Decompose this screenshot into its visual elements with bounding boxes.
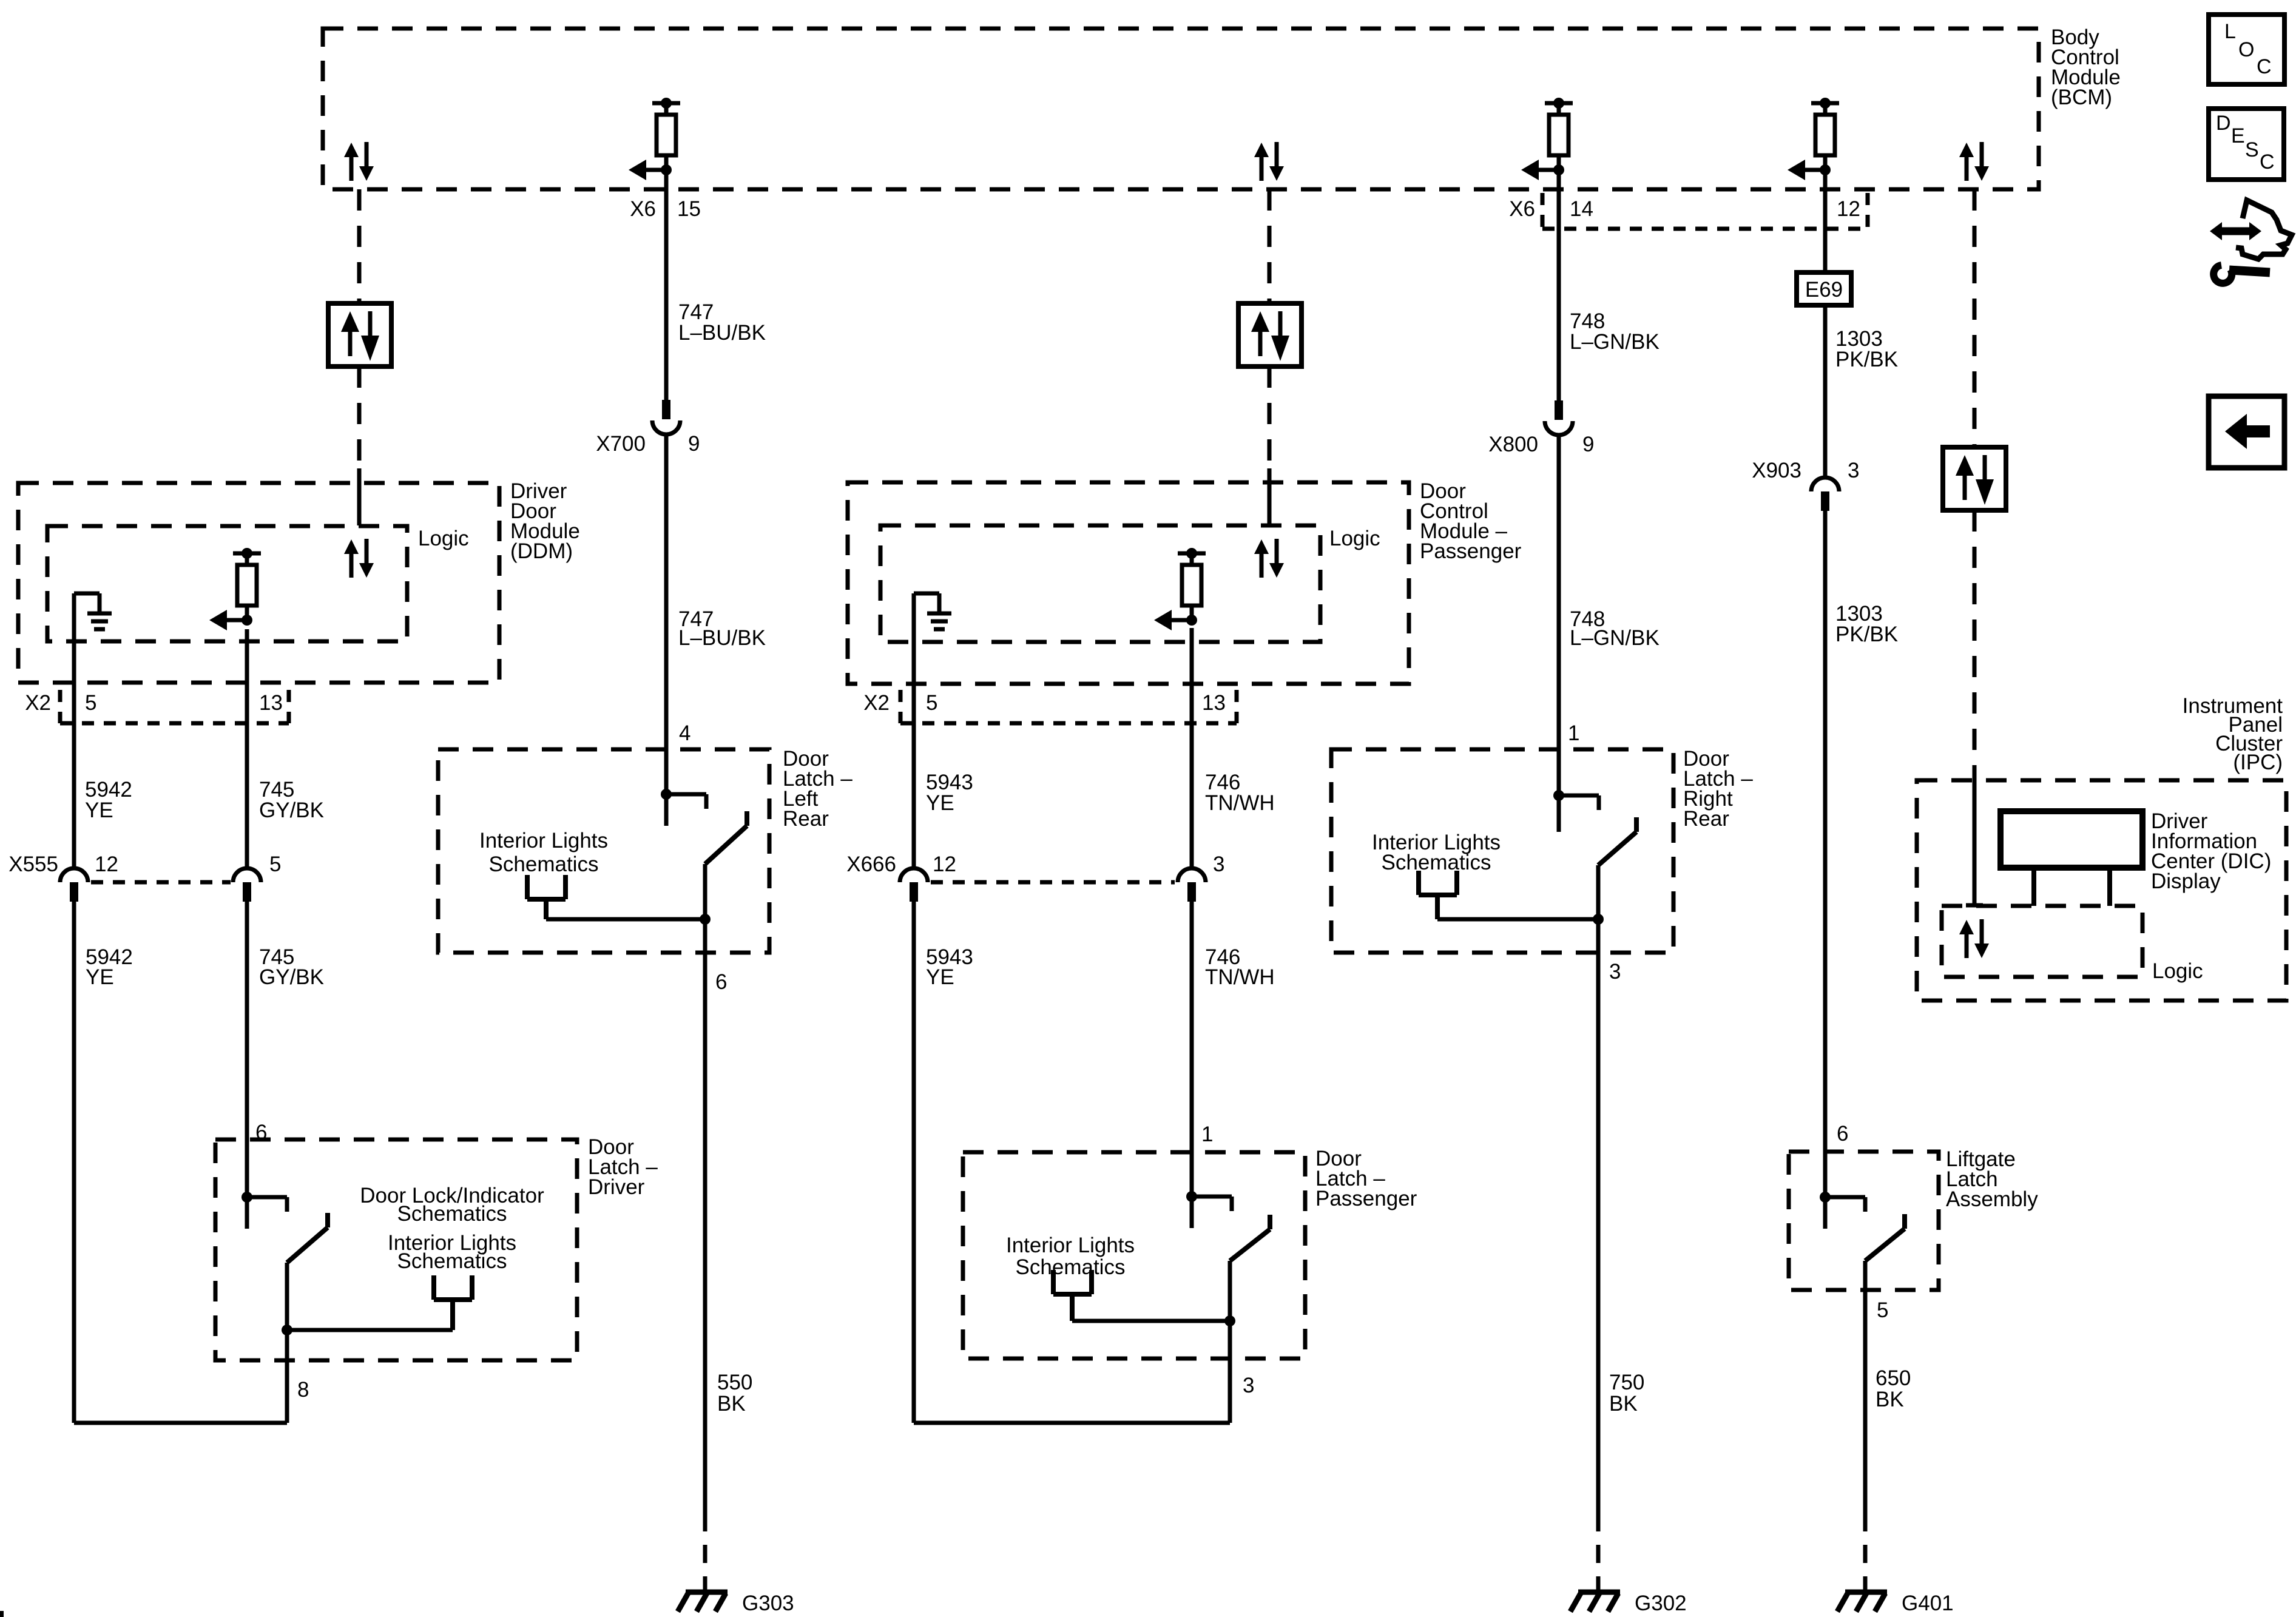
svg-text:Driver: Driver (588, 1175, 645, 1199)
wire: X666-12 to Door Latch Passenger pin 3 loop (5943 YE) (914, 902, 1230, 1423)
wire: dashed drop to G401 (1863, 1513, 1868, 1591)
svg-text:YE: YE (926, 965, 954, 989)
connector X666 pin 3 (1178, 852, 1224, 902)
svg-text:12: 12 (1837, 197, 1860, 221)
svg-text:G302: G302 (1635, 1592, 1687, 1615)
ground G303 (678, 1592, 794, 1615)
data link connector symbol (boxed arrows) BCM-IPC (1943, 447, 2006, 510)
svg-text:750: 750 (1609, 1371, 1644, 1394)
svg-text:O: O (2238, 38, 2254, 61)
module box: Driver Door Module (DDM) (18, 483, 499, 683)
data link symbol in IPC logic (1959, 919, 1989, 958)
svg-text:Schematics: Schematics (397, 1202, 507, 1226)
wire: serial data dashed BCM to DDM (357, 189, 362, 303)
svg-text:Logic: Logic (418, 527, 469, 550)
wire label 747 L-BU/BK (lower) (678, 607, 766, 650)
switch fixed contact (Liftgate Latch) (1820, 1192, 1865, 1229)
switch fixed contact (Door Latch Left Rear) (661, 789, 706, 826)
svg-text:Interior Lights: Interior Lights (1006, 1234, 1135, 1257)
svg-text:(IPC): (IPC) (2233, 751, 2283, 774)
svg-text:X6: X6 (630, 197, 656, 221)
connector pin 12 label (1837, 197, 1860, 221)
switch blade (Door Latch Passenger) (1230, 1215, 1270, 1261)
ground symbol in DDM logic (74, 593, 112, 629)
ground G302 (1570, 1592, 1687, 1615)
module box: Instrument Panel Cluster (IPC) (1917, 780, 2286, 1001)
connector X2 (DCM) label (863, 691, 890, 715)
module box: Door Latch - Left Rear (438, 749, 769, 953)
schematic reference bracket (Passenger) (1053, 1270, 1092, 1321)
svg-text:3: 3 (1243, 1374, 1254, 1397)
ground symbol in DCM logic (914, 593, 951, 629)
svg-text:Passenger: Passenger (1315, 1187, 1417, 1210)
wire: junction to bracket (Left Rear) (546, 917, 705, 922)
svg-text:L–BU/BK: L–BU/BK (678, 321, 766, 345)
svg-text:Schematics: Schematics (489, 852, 599, 876)
svg-text:1: 1 (1201, 1122, 1213, 1146)
wire label 1303 PK/BK (upper) (1835, 327, 1898, 371)
data link symbol (serial data arrows) in BCM, DDM branch (344, 142, 374, 181)
label: Interior Lights Schematics (Passenger) (1006, 1234, 1135, 1279)
connector X2 (DCM) dotted box (900, 690, 1237, 723)
switch fixed contact (Door Latch Right Rear) (1553, 790, 1599, 827)
label: Interior Lights Schematics (Left Rear) (479, 829, 608, 876)
pin 8 label (Door Latch Driver) (297, 1378, 309, 1402)
svg-text:G401: G401 (1902, 1592, 1954, 1615)
svg-text:X903: X903 (1752, 459, 1801, 482)
svg-text:5: 5 (85, 691, 96, 715)
svg-text:YE: YE (86, 965, 114, 989)
driver output U1 (resistor) in BCM for X6 pin 15 (629, 98, 680, 180)
svg-text:X700: X700 (596, 432, 646, 456)
wire: pin 8 down to loop (285, 1330, 289, 1423)
wire: DDM X2-5 to X555-12 (5942 YE) (72, 593, 76, 868)
svg-text:Assembly: Assembly (1946, 1187, 2038, 1211)
data link symbol in DCM logic (1254, 539, 1284, 578)
svg-text:3: 3 (1213, 852, 1224, 876)
icon: DESC reference box (2209, 109, 2284, 180)
wire label 745 GY/BK (upper) (259, 778, 324, 822)
wire: dashed drop to G303 (703, 1513, 707, 1591)
svg-text:X800: X800 (1488, 433, 1538, 456)
connector X2 (DDM) dotted box (60, 690, 289, 723)
wire label 746 TN/WH (lower) (1205, 945, 1275, 989)
data link symbol (serial data arrows) in BCM, DCM branch (1254, 142, 1284, 181)
logic box in DDM (47, 526, 407, 641)
svg-text:8: 8 (297, 1378, 309, 1402)
label: Door Control Module - Passenger (1420, 479, 1522, 563)
svg-text:14: 14 (1570, 197, 1593, 221)
wire: DDM X2-13 to X555-5 (745 GY/BK) (245, 629, 249, 868)
pin 1 label (Door Latch Passenger) (1201, 1122, 1213, 1146)
svg-text:Interior Lights: Interior Lights (479, 829, 608, 852)
label: Logic (IPC) (2152, 959, 2203, 983)
data link connector symbol (boxed arrows) BCM-DCM (1238, 303, 1302, 366)
wire label 745 GY/BK (lower) (259, 945, 324, 989)
schematic reference bracket (Left Rear) (527, 875, 566, 919)
connector X555 pin 5 (233, 852, 281, 902)
wire: X555-12 to Door Latch Driver pin 8 loop (5942 YE) (74, 902, 287, 1423)
svg-text:6: 6 (255, 1121, 267, 1144)
svg-text:D: D (2216, 112, 2231, 135)
module box: Door Latch - Passenger (963, 1152, 1305, 1359)
wire label 650 BK (1876, 1366, 1911, 1411)
driver output Q2 (resistor) in DCM logic (1154, 548, 1206, 630)
module box: Door Latch - Right Rear (1331, 749, 1673, 953)
connector X555 dotted link (91, 880, 231, 885)
svg-text:X2: X2 (863, 691, 890, 715)
svg-text:TN/WH: TN/WH (1205, 965, 1275, 989)
svg-text:L–GN/BK: L–GN/BK (1570, 626, 1660, 650)
ground G401 (1837, 1592, 1954, 1615)
wire: serial data into IPC logic (1966, 771, 1983, 905)
stray ink mark (page corner) (0, 1611, 4, 1617)
label: Instrument Panel Cluster (IPC) (2183, 694, 2283, 774)
wire: X800 to Door Latch Right Rear pin 1 (748 L-GN/BK) (1557, 435, 1561, 832)
connector X2 pin 5 label (DDM) (85, 691, 96, 715)
wire label 748 L-GN/BK (upper) (1570, 309, 1660, 354)
connector X666 pin 12 (900, 868, 928, 902)
wire: X555-5 to Door Latch Driver pin 6 (745 GY/BK) (245, 902, 249, 1197)
label: Driver Information Center (DIC) Display (2151, 809, 2271, 893)
svg-text:Rear: Rear (783, 807, 829, 831)
wire label 747 L-BU/BK (upper) (678, 300, 766, 345)
wire label 750 BK (1609, 1371, 1644, 1416)
label: Body Control Module (BCM) (2051, 25, 2121, 109)
svg-text:L–GN/BK: L–GN/BK (1570, 330, 1660, 354)
svg-text:550: 550 (717, 1371, 752, 1394)
wire: Liftgate Latch pin 5 to G401 (650 BK) (1863, 1261, 1868, 1513)
schematic reference bracket (Door Latch Driver) (434, 1275, 472, 1330)
svg-text:S: S (2245, 138, 2259, 161)
display: Driver Information Center (DIC) (2001, 811, 2142, 868)
svg-text:X555: X555 (8, 852, 58, 876)
svg-text:3: 3 (1848, 459, 1859, 482)
label: Liftgate Latch Assembly (1946, 1147, 2038, 1211)
svg-text:(BCM): (BCM) (2051, 86, 2112, 109)
svg-text:YE: YE (85, 798, 113, 822)
svg-text:15: 15 (677, 197, 701, 221)
wire: serial data dashed BCM to DCM (1268, 189, 1272, 303)
svg-text:(DDM): (DDM) (510, 539, 573, 563)
pin 4 label (Door Latch Left Rear) (679, 721, 690, 745)
pin 6 label (Liftgate Latch) (1837, 1122, 1848, 1146)
switch blade (Door Latch Left Rear) (705, 811, 747, 864)
module box: Door Latch - Driver (215, 1139, 577, 1360)
wire label 746 TN/WH (upper) (1205, 771, 1275, 815)
label: Driver Door Module (DDM) (510, 479, 580, 563)
connector X903 label (1752, 459, 1859, 482)
svg-text:L: L (2224, 20, 2236, 43)
schematic reference bracket (Right Rear) (1419, 871, 1457, 919)
driver output U3 (resistor) in BCM for pin 12 (1788, 98, 1839, 180)
connector X6 pin 14 label (1509, 197, 1593, 221)
wire label 5942 YE (lower) (86, 945, 133, 989)
switch fixed contact (Door Latch Driver) (241, 1192, 287, 1229)
pin 3 label (Door Latch Right Rear) (1609, 960, 1621, 984)
wire label 5943 YE (upper) (926, 771, 973, 815)
svg-text:9: 9 (1582, 433, 1594, 456)
svg-text:G303: G303 (742, 1592, 794, 1615)
connector X2 pin 13 label (DCM) (1202, 691, 1226, 715)
wire: pin 3 down to loop (1228, 1321, 1232, 1423)
connector X666 label (846, 852, 956, 876)
svg-text:PK/BK: PK/BK (1835, 348, 1898, 371)
connector X2 pin 5 label (DCM) (926, 691, 937, 715)
wire: E69 to X903 (1823, 305, 1828, 478)
label: Logic (DDM) (418, 527, 469, 550)
wire: DCM X2-5 to X666-12 (5943 YE) (912, 593, 916, 868)
wire: junction to bracket (Right Rear) (1437, 917, 1598, 922)
driver output U2 (resistor) in BCM for X6 pin 14 (1521, 98, 1573, 180)
svg-text:Logic: Logic (2152, 959, 2203, 983)
icon: back arrow box (2209, 396, 2284, 468)
pin 6 label (Door Latch Driver) (255, 1121, 267, 1144)
svg-text:1: 1 (1568, 721, 1579, 745)
data link symbol in DDM logic (344, 539, 374, 578)
module box: Door Control Module - Passenger (848, 482, 1409, 684)
svg-text:3: 3 (1609, 960, 1621, 984)
wire label 5943 YE (lower) (926, 945, 973, 989)
wire label 550 BK (717, 1371, 752, 1416)
wire: Door Latch Right Rear pin 3 to G302 (750 BK) (1596, 919, 1601, 1513)
svg-text:BK: BK (1876, 1388, 1904, 1411)
connector X555 pin 12 (60, 868, 88, 902)
svg-text:6: 6 (1837, 1122, 1848, 1146)
data link connector symbol (boxed arrows) BCM-DDM (328, 303, 391, 366)
svg-text:650: 650 (1876, 1366, 1911, 1390)
svg-text:X666: X666 (846, 852, 896, 876)
svg-text:BK: BK (717, 1392, 746, 1416)
connector X555 label (8, 852, 118, 876)
label: Door Latch - Driver (588, 1135, 658, 1199)
wire: Door Latch Left Rear pin 6 to G303 (550 BK) (703, 919, 707, 1513)
wire: junction to Interior Lights bracket (287, 1328, 453, 1332)
svg-text:C: C (2260, 150, 2275, 174)
label: Interior Lights Schematics (Door Latch Driver) (388, 1231, 516, 1273)
svg-text:Rear: Rear (1683, 807, 1729, 831)
switch blade (Door Latch Right Rear) (1598, 817, 1636, 865)
connector X2 (DDM) label (25, 691, 51, 715)
wire: blade to junction (Door Latch Passenger) (1228, 1261, 1232, 1321)
wire: X666-3 to Door Latch Passenger pin 1 (746 TN/WH) (1190, 902, 1194, 1197)
wire label 1303 PK/BK (lower) (1835, 602, 1898, 646)
wire: serial data dashed to IPC (1973, 510, 1977, 771)
pin 3 label (Door Latch Passenger) (1243, 1374, 1254, 1397)
splice E69 (1797, 272, 1851, 305)
svg-text:13: 13 (1202, 691, 1226, 715)
wire: dashed drop to G302 (1596, 1513, 1601, 1591)
wire: BCM pin 12 to E69 (1823, 170, 1828, 272)
label: Door Latch - Passenger (1315, 1147, 1417, 1210)
DIC display legs (2034, 868, 2110, 906)
svg-text:12: 12 (95, 852, 118, 876)
connector X666 dotted link (931, 880, 1175, 885)
svg-text:X2: X2 (25, 691, 51, 715)
pin 5 label (Liftgate Latch) (1877, 1298, 1888, 1322)
module box: Body Control Module (BCM) (323, 29, 2039, 189)
svg-text:E69: E69 (1805, 278, 1843, 302)
wire label 5942 YE (upper) (85, 778, 132, 822)
wire: serial data dashed BCM to IPC (1973, 189, 1977, 447)
connector X2 pin 13 label (DDM) (259, 691, 283, 715)
wire: blade to junction (Door Latch Right Rear) (1596, 865, 1601, 919)
driver output Q1 (resistor) in DDM logic (209, 548, 261, 630)
wire: serial data dashed to DDM logic (357, 366, 362, 525)
node: junction in Door Latch Driver (282, 1325, 292, 1335)
pin 1 label (Door Latch Right Rear) (1568, 721, 1579, 745)
node: junction in Door Latch Passenger (1224, 1315, 1235, 1326)
svg-text:Logic: Logic (1329, 527, 1380, 550)
logic box in IPC (1942, 906, 2142, 977)
label: Door Latch - Left Rear (783, 747, 853, 831)
svg-text:5: 5 (926, 691, 937, 715)
connector X903 pin 3 (1811, 478, 1839, 511)
label: Interior Lights Schematics (Right Rear) (1372, 831, 1501, 874)
svg-text:X6: X6 (1509, 197, 1535, 221)
svg-text:GY/BK: GY/BK (259, 965, 324, 989)
label: Door Lock/Indicator Schematics (360, 1184, 544, 1226)
node: junction in Door Latch Left Rear (700, 914, 711, 925)
wire: blade to junction (Door Latch Driver) (285, 1263, 289, 1330)
pin 6 label (Door Latch Left Rear) (715, 970, 727, 994)
module box: Liftgate Latch Assembly (1789, 1152, 1939, 1290)
node: junction in Door Latch Right Rear (1593, 914, 1604, 925)
connector X6 pin 15 label (630, 197, 701, 221)
svg-text:4: 4 (679, 721, 690, 745)
svg-text:E: E (2231, 124, 2245, 147)
label: Logic (DCM) (1329, 527, 1380, 550)
switch blade (Door Latch Driver) (287, 1213, 328, 1263)
wire: DCM X2-13 to X666-3 (746 TN/WH) (1190, 628, 1194, 868)
wire: serial data dashed to DCM logic (1268, 366, 1272, 525)
svg-text:C: C (2257, 55, 2272, 78)
svg-text:Passenger: Passenger (1420, 539, 1522, 563)
wire: X700 to Door Latch Left Rear pin 4 (747 L-BU/BK) (664, 434, 669, 826)
connector X800 label (1488, 433, 1594, 456)
wire: junction to bracket (Passenger) (1072, 1319, 1230, 1323)
connector X6 pins 14/12 dotted box (1542, 193, 1868, 229)
switch blade (Liftgate Latch) (1865, 1214, 1905, 1261)
svg-text:BK: BK (1609, 1392, 1638, 1416)
icon: diagnostic hand with double arrow and wrench (2210, 200, 2292, 283)
connector X800 pin 9 (1545, 400, 1573, 435)
logic box in DCM (880, 525, 1320, 642)
svg-text:L–BU/BK: L–BU/BK (678, 626, 766, 650)
wire label 748 L-GN/BK (lower) (1570, 607, 1660, 650)
connector X700 pin 9 (652, 400, 680, 434)
svg-text:Schematics: Schematics (1382, 851, 1491, 874)
svg-text:TN/WH: TN/WH (1205, 791, 1275, 815)
wire: BCM X6-15 to X700 (747 L-BU/BK) (664, 170, 669, 400)
svg-text:5: 5 (269, 852, 281, 876)
svg-text:Schematics: Schematics (1016, 1255, 1126, 1279)
switch fixed contact (Door Latch Passenger) (1186, 1191, 1232, 1228)
wire: X903 to Liftgate Latch pin 6 (1303 PK/BK) (1823, 511, 1828, 1197)
svg-text:Display: Display (2151, 869, 2221, 893)
svg-text:13: 13 (259, 691, 283, 715)
wire: BCM X6-14 to X800 (748 L-GN/BK) (1557, 170, 1561, 400)
svg-text:Schematics: Schematics (397, 1249, 507, 1273)
svg-text:GY/BK: GY/BK (259, 798, 324, 822)
data link symbol (serial data arrows) in BCM, IPC branch (1959, 142, 1989, 181)
svg-text:12: 12 (933, 852, 956, 876)
icon: LOC reference box (2209, 15, 2284, 84)
connector X700 label (596, 432, 700, 456)
wire: blade to junction (Door Latch Left Rear) (703, 864, 707, 919)
svg-text:9: 9 (688, 432, 700, 456)
svg-text:YE: YE (926, 791, 954, 815)
svg-text:5: 5 (1877, 1298, 1888, 1322)
label: Door Latch - Right Rear (1683, 747, 1753, 831)
svg-text:6: 6 (715, 970, 727, 994)
svg-text:PK/BK: PK/BK (1835, 623, 1898, 646)
